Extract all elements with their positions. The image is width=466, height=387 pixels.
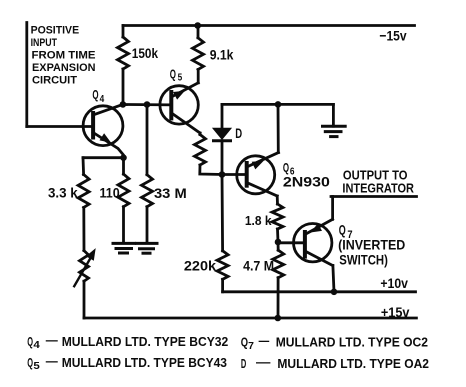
transistor Q7 base bar bbox=[303, 232, 307, 257]
junction dot Q4 emitter node bbox=[120, 154, 127, 161]
svg-text:4: 4 bbox=[33, 340, 40, 351]
wire Q4 collector node to Q5 base bbox=[123, 103, 171, 106]
ground symbol G1 (110) bbox=[113, 243, 135, 253]
svg-text:Q: Q bbox=[92, 87, 98, 102]
wire variable resistor to +15v rail bbox=[83, 281, 86, 318]
wire Q7 collector down to +10v rail bbox=[333, 266, 334, 292]
transistor Q5 base bar bbox=[169, 92, 173, 118]
junction dot Q7 base node bbox=[275, 239, 282, 246]
svg-text:150k: 150k bbox=[132, 45, 158, 61]
wire Q4 emitter node left bbox=[83, 156, 124, 159]
wire diode node to Q6 base bbox=[222, 173, 247, 176]
svg-text:POSITIVE: POSITIVE bbox=[31, 24, 80, 36]
svg-text:(INVERTED: (INVERTED bbox=[338, 237, 405, 253]
junction dot 9.1k on -15v rail bbox=[194, 22, 201, 29]
wire Q5 collector down bbox=[199, 133, 202, 135]
junction dot 33M takeoff bbox=[144, 101, 151, 108]
svg-text:MULLARD LTD. TYPE BCY43: MULLARD LTD. TYPE BCY43 bbox=[62, 355, 227, 370]
junction dot Q4 collector node bbox=[120, 101, 127, 108]
wire 9.1k top stub bbox=[197, 26, 200, 38]
resistor R2 9.1k bbox=[193, 38, 204, 70]
svg-text:Q: Q bbox=[27, 355, 33, 370]
svg-text:—: — bbox=[256, 355, 270, 370]
svg-text:3.3 k: 3.3 k bbox=[48, 185, 78, 201]
svg-text:MULLARD LTD. TYPE OA2: MULLARD LTD. TYPE OA2 bbox=[277, 356, 429, 371]
svg-text:1.8 k: 1.8 k bbox=[245, 213, 272, 228]
wire Q4 base bbox=[27, 125, 93, 128]
resistor R4 3.3k bbox=[78, 175, 89, 208]
transistor Q6 emitter diagonal bbox=[247, 153, 279, 168]
wire 110 to ground bbox=[122, 207, 125, 242]
transistor Q7 emitter diagonal bbox=[305, 219, 333, 234]
transistor Q4 emitter arrowhead bbox=[100, 133, 112, 143]
svg-text:+10v: +10v bbox=[380, 275, 408, 291]
transistor Q6 collector diagonal bbox=[247, 183, 278, 197]
svg-text:5: 5 bbox=[178, 73, 183, 84]
transistor Q4 emitter diagonal bbox=[93, 133, 123, 158]
wire 1.8k to Q7 base node bbox=[276, 229, 279, 242]
svg-text:—: — bbox=[259, 333, 270, 348]
svg-text:−15v: −15v bbox=[379, 27, 406, 43]
junction dot 4.7M on +15v rail bbox=[275, 315, 282, 322]
svg-text:EXPANSION: EXPANSION bbox=[32, 62, 96, 74]
wire R6 bottom corner to diode node bbox=[200, 165, 222, 175]
resistor R3 33M bbox=[142, 175, 153, 207]
transistor Q6 base bar bbox=[245, 163, 249, 186]
svg-text:33 M: 33 M bbox=[154, 185, 187, 201]
transistor Q6 circle bbox=[237, 156, 275, 194]
transistor Q7 circle bbox=[294, 224, 332, 262]
wire Q7 base node to 4.7M bbox=[277, 242, 280, 250]
transistor Q5 collector diagonal bbox=[171, 113, 200, 133]
wire 150k top stub bbox=[122, 26, 125, 38]
svg-text:Q: Q bbox=[170, 67, 176, 82]
transistor Q5 circle bbox=[160, 86, 198, 124]
resistor R9 4.7M bbox=[273, 250, 284, 278]
wire 3.3k top stub bbox=[82, 158, 85, 175]
svg-text:+15v: +15v bbox=[381, 304, 410, 320]
wire 33M takeoff down bbox=[146, 105, 149, 175]
transistor Q6 emitter arrowhead bbox=[252, 161, 264, 169]
transistor Q5 emitter arrowhead bbox=[173, 91, 185, 100]
transistor Q4 circle bbox=[83, 106, 123, 146]
svg-text:Q: Q bbox=[339, 221, 346, 237]
svg-text:FROM TIME: FROM TIME bbox=[32, 50, 96, 62]
ground symbol G3 (Q6 emitter) bbox=[323, 126, 346, 136]
svg-text:CIRCUIT: CIRCUIT bbox=[32, 75, 77, 87]
resistor R8 1.8k bbox=[272, 204, 283, 229]
svg-text:MULLARD LTD. TYPE OC2: MULLARD LTD. TYPE OC2 bbox=[276, 335, 428, 350]
wire 33M to ground bbox=[146, 207, 149, 242]
wire 9.1k bottom to Q5 emitter bbox=[197, 70, 200, 83]
svg-text:—: — bbox=[46, 333, 58, 348]
variable resistor arrow shaft bbox=[74, 256, 91, 286]
wire Q7 base bbox=[278, 241, 305, 244]
wire -15v supply rail bbox=[123, 24, 415, 27]
svg-text:INPUT: INPUT bbox=[31, 37, 58, 49]
variable resistor arrowhead bbox=[86, 248, 96, 261]
transistor Q7 collector diagonal bbox=[305, 251, 333, 266]
transistor Q7 emitter arrowhead bbox=[310, 224, 322, 233]
wire Q6 emitter up to top node bbox=[277, 104, 280, 152]
svg-text:2N930: 2N930 bbox=[283, 174, 330, 190]
junction dot Q6 emitter top node bbox=[275, 101, 282, 108]
wire +15v rail bbox=[84, 317, 416, 320]
wire 150k bottom to Q4 collector node bbox=[122, 69, 125, 104]
wire diode node down to 220k bbox=[221, 175, 224, 251]
resistor R5 110 bbox=[118, 174, 129, 207]
svg-text:Q: Q bbox=[27, 334, 33, 349]
wire diode cathode stub bbox=[221, 141, 224, 175]
diode D cathode bar bbox=[214, 139, 231, 142]
wire ground stub top right bbox=[332, 104, 335, 126]
wire output to integrator bbox=[331, 195, 417, 198]
transistor Q5 emitter diagonal bbox=[171, 83, 198, 97]
svg-text:110: 110 bbox=[100, 185, 120, 201]
svg-text:220k: 220k bbox=[184, 258, 216, 274]
svg-text:9.1k: 9.1k bbox=[210, 47, 234, 63]
wire diode anode stub bbox=[221, 104, 224, 129]
resistor R6 below Q5 bbox=[195, 135, 206, 166]
svg-text:D: D bbox=[235, 125, 242, 141]
ground symbol G2 (33M) bbox=[137, 243, 158, 253]
wire +10v rail bbox=[223, 290, 416, 293]
variable resistor zigzag bbox=[80, 251, 89, 282]
wire Q7 emitter up to output bbox=[331, 197, 334, 220]
junction dot Q7 collector on +10v rail bbox=[331, 289, 338, 296]
svg-text:SWITCH): SWITCH) bbox=[339, 251, 388, 267]
wire 3.3k down to variable resistor bbox=[82, 208, 85, 251]
diode D triangle bbox=[214, 129, 231, 139]
svg-text:4.7 M: 4.7 M bbox=[243, 258, 274, 274]
wire top node horizontal to ground corner bbox=[222, 103, 333, 106]
svg-text:5: 5 bbox=[33, 361, 40, 372]
transistor Q4 collector diagonal bbox=[93, 104, 123, 115]
wire input bracket vertical bbox=[25, 23, 28, 127]
wire Q6 collector to 1.8k bbox=[276, 196, 279, 204]
svg-text:Q: Q bbox=[241, 335, 248, 350]
svg-text:D: D bbox=[241, 356, 246, 371]
junction dot diode cathode node bbox=[219, 171, 226, 178]
svg-text:MULLARD LTD. TYPE BCY32: MULLARD LTD. TYPE BCY32 bbox=[62, 334, 229, 349]
resistor R7 220k bbox=[217, 251, 228, 279]
svg-text:INTEGRATOR: INTEGRATOR bbox=[342, 181, 414, 196]
wire Q4 emitter node to 110 bbox=[122, 158, 125, 174]
svg-text:—: — bbox=[46, 354, 58, 369]
svg-text:4: 4 bbox=[100, 94, 105, 105]
resistor R1 150k bbox=[118, 37, 129, 69]
wire 220k bottom corner to +10v rail bbox=[221, 279, 224, 292]
svg-text:7: 7 bbox=[248, 341, 254, 352]
wire 4.7M down to +15v rail bbox=[277, 278, 280, 318]
transistor Q4 base bar bbox=[91, 113, 95, 138]
